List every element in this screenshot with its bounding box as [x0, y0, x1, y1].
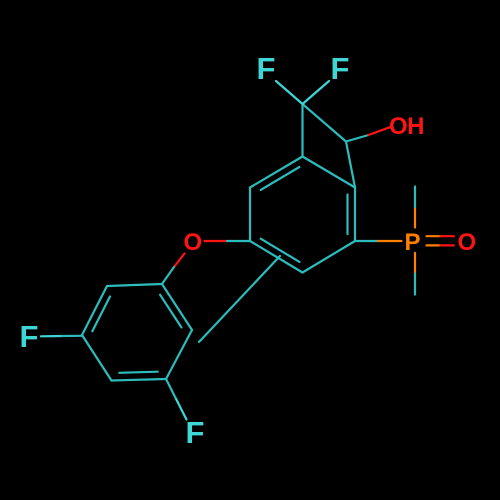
bond P-CH3 up P half: [414, 207, 416, 228]
P=O double bond line2 P half: [427, 244, 441, 246]
svg-text:O: O: [184, 229, 203, 256]
stray diagonal line: [199, 256, 280, 342]
bottom ring edge P3-P4: [112, 379, 167, 381]
bond P-CH3 up carbon half: [414, 187, 416, 208]
svg-text:F: F: [20, 319, 39, 354]
cyclobutene bond CHOH-UR: [346, 142, 355, 188]
bond ring-P carbon half: [355, 240, 378, 242]
bond ring-F bottom carbon half: [166, 379, 176, 399]
svg-text:F: F: [257, 51, 276, 86]
bottom ring edge P6-P1: [107, 284, 162, 286]
bottom ring inner double P3-P4: [119, 372, 158, 373]
P=O double bond line1 O half: [441, 235, 454, 237]
top benzene ring edge UR-LR: [354, 188, 356, 242]
bond ring-F left F half: [41, 335, 62, 337]
bond CHOH-OH carbon half: [346, 135, 369, 142]
cyclobutene bond T-CF2: [301, 104, 303, 157]
P=O double bond line2 O half: [441, 244, 454, 246]
bond CHOH-OH oxygen half: [369, 127, 392, 135]
bond P-CH3 down carbon half: [414, 274, 416, 295]
bottom ring inner double P1-P2: [160, 295, 181, 328]
top benzene ring edge UL-T: [250, 157, 303, 188]
svg-text:P: P: [405, 229, 421, 256]
bottom ring edge P1-P2: [162, 284, 192, 330]
svg-text:O: O: [458, 229, 477, 256]
svg-text:F: F: [186, 415, 205, 450]
top benzene ring edge LL-UL: [249, 188, 251, 242]
bond ether O to top ring O half: [205, 240, 228, 242]
bond ring-F bottom F half: [176, 399, 186, 419]
bottom ring inner double P5-P6: [92, 297, 110, 332]
top benzene ring inner double UR-LR: [346, 195, 348, 235]
top benzene ring inner double UL-T: [261, 167, 300, 190]
svg-text:OH: OH: [389, 113, 424, 140]
bond CF2-F2: [303, 81, 330, 104]
P=O double bond line1 P half: [427, 235, 441, 237]
bottom ring edge P2-P3: [166, 330, 192, 379]
top benzene ring edge B-LL: [250, 241, 303, 273]
bond ether O to bottom ring O half: [174, 254, 185, 268]
top benzene ring inner double B-LL: [261, 239, 300, 262]
bond P-CH3 down P half: [414, 253, 416, 274]
bond ether O to bottom ring carbon half: [162, 267, 174, 284]
top benzene ring edge T-UR: [303, 157, 356, 188]
cyclobutene bond CF2-CHOH: [303, 104, 347, 142]
bottom ring edge P5-P6: [82, 286, 107, 335]
top benzene ring edge LR-B: [303, 241, 356, 273]
bond CF2-F1: [276, 81, 303, 104]
svg-text:F: F: [331, 51, 350, 86]
bond ring-F left carbon half: [62, 335, 83, 337]
bond ether O to top ring carbon half: [227, 240, 250, 242]
bond ring-P phosphorus half: [378, 240, 402, 242]
bottom ring edge P4-P5: [82, 335, 112, 381]
